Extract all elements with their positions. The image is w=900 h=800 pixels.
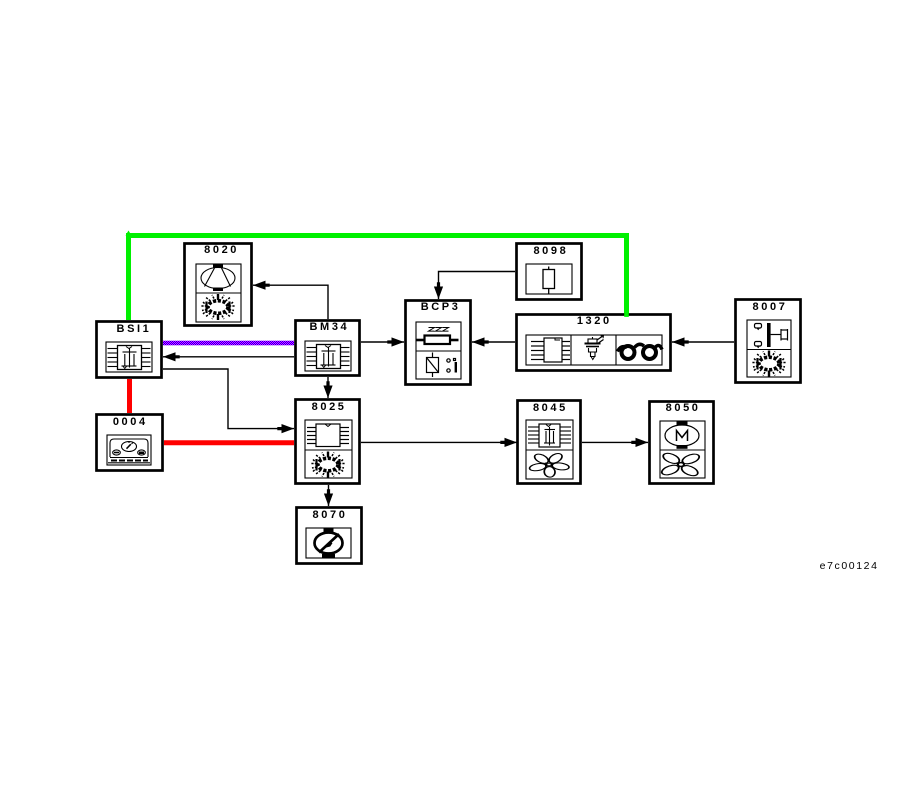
coils icon	[618, 344, 663, 359]
fan icon 8050	[659, 451, 702, 477]
label 8007	[727, 302, 810, 313]
wire red 0004 right to 8025 left	[164, 440, 294, 445]
ecu mini icon 8045	[528, 424, 571, 447]
chip icon 1320	[531, 338, 570, 362]
motor icon	[665, 422, 699, 449]
splat icon 8007	[752, 351, 786, 377]
arrow into 8025 left	[277, 424, 294, 433]
arrow into BCP3 top	[434, 282, 443, 299]
box 8070	[297, 508, 362, 564]
wire 8025 right to 8045 left	[361, 441, 517, 443]
label 8025	[287, 402, 370, 413]
wire red BSI1 bottom to 0004 top	[127, 379, 132, 413]
sensor resistor icon	[543, 267, 555, 295]
chip icon 8025	[307, 424, 349, 447]
fuse icon	[427, 353, 456, 378]
wire 1320 left to BCP3 right	[472, 341, 515, 343]
box BCP3	[406, 301, 471, 385]
label 8050	[641, 403, 724, 414]
label 1320	[552, 316, 635, 327]
label 8045	[508, 403, 591, 414]
wire 8098 left to BCP3 top	[439, 272, 516, 300]
arrow into 1320 right	[672, 337, 689, 346]
label 8020	[179, 245, 262, 256]
fan icon 8045	[528, 452, 570, 477]
box 0004	[97, 415, 163, 471]
arrow into 8045 left	[500, 438, 517, 447]
wire purple (blue/magenta check) BSI1 right to BM34 left	[163, 341, 294, 346]
wire green BSI1 top to 1320 top	[129, 236, 627, 321]
wire 8020 to BM34 top	[253, 285, 328, 319]
box 8025	[296, 400, 360, 484]
pressure switch icon	[755, 323, 788, 348]
instrument cluster icon	[108, 439, 150, 463]
drawing number text	[798, 561, 900, 572]
arrow into 8020	[253, 281, 270, 290]
arrow into BCP3 left	[387, 337, 404, 346]
heater resistor icon	[417, 328, 459, 345]
compressor icon	[201, 264, 235, 291]
box 8045	[518, 401, 581, 484]
box 8007	[736, 300, 801, 383]
wire 8007 left to 1320 right	[672, 341, 734, 343]
box BSI1	[97, 322, 162, 378]
box 8050	[650, 402, 714, 484]
injector icon	[585, 336, 604, 360]
box 8098	[517, 244, 582, 300]
arrow into BSI1 right	[163, 352, 180, 361]
wire 8025 bottom to 8070 top	[328, 485, 330, 506]
wire BM34 left to BSI1 right	[163, 356, 294, 358]
label 8070	[287, 510, 370, 521]
box 8020	[185, 244, 252, 326]
splat icon 8025	[311, 452, 345, 478]
wire BSI1 right to 8025 left (jog)	[163, 369, 294, 429]
label BSI1	[91, 324, 174, 335]
label 8098	[508, 246, 591, 257]
label BCP3	[398, 302, 481, 313]
wire 8045 right to 8050 left	[582, 441, 648, 443]
box 1320	[517, 315, 671, 371]
arrow into BCP3 right	[472, 337, 489, 346]
arrow into 8050 left	[631, 438, 648, 447]
arrow into 8070 top	[324, 489, 333, 506]
splat icon 8020	[201, 294, 235, 320]
actuator icon	[315, 528, 343, 559]
arrow into 8025 top	[323, 381, 332, 398]
wire BM34 bottom to 8025 top	[327, 377, 329, 398]
label 0004	[88, 417, 171, 428]
box BM34	[296, 321, 360, 376]
wire green overlap over 1320 border	[624, 313, 629, 317]
green corner tip	[126, 231, 132, 236]
label BM34	[287, 322, 370, 333]
wire BM34 right to BCP3 left	[361, 341, 404, 343]
